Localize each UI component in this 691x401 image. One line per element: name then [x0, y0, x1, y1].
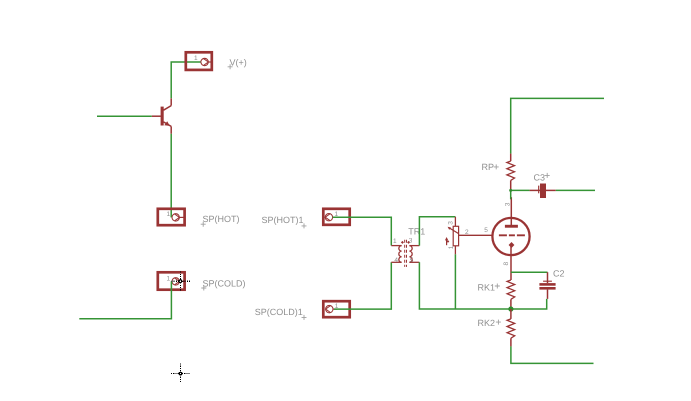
label SP(COLD) [201, 278, 245, 290]
resistor RK2 [507, 309, 515, 346]
wire SP(HOT)1 net to TR1 pin1 [333, 217, 392, 245]
wire anode node [510, 189, 512, 199]
junction cathode rail [508, 306, 513, 311]
resistor RP [507, 154, 515, 190]
svg-text:1: 1 [448, 245, 455, 249]
connector J1 V(+) [186, 52, 213, 70]
svg-text:5: 5 [484, 227, 488, 234]
svg-text:1: 1 [393, 238, 397, 245]
wire SP(COLD)1 net to TR1 pin4 [334, 262, 391, 309]
wire anode to C3 [511, 189, 530, 191]
svg-text:3: 3 [505, 202, 512, 206]
connector SP(HOT)1 [323, 209, 349, 225]
svg-text:3: 3 [447, 221, 454, 225]
svg-text:2: 2 [465, 229, 469, 236]
connector SP(HOT) [158, 209, 185, 225]
wire TR1 pin5 to cathode junction rail [419, 262, 546, 309]
label RK2 [478, 318, 501, 328]
svg-text:SP(HOT)1: SP(HOT)1 [262, 215, 304, 225]
svg-text:RK1: RK1 [478, 283, 496, 293]
wire potentiometer bottom to rail [454, 254, 456, 309]
resistor RK1 [507, 280, 515, 309]
cursor crosshair on SP(COLD) pin [171, 272, 190, 291]
svg-text:TR1: TR1 [408, 227, 425, 237]
capacitor C2 (polarized) [539, 272, 555, 299]
junction anode node [509, 189, 512, 192]
wire TR1 pin3 to potentiometer top [419, 217, 455, 246]
svg-text:SP(COLD): SP(COLD) [203, 278, 246, 288]
svg-text:RK2: RK2 [478, 318, 496, 328]
cursor crosshair lower [171, 364, 190, 384]
connector SP(COLD)1 [323, 301, 349, 317]
wire emitter net to SP(HOT) [170, 134, 172, 218]
transformer TR1 [391, 240, 419, 267]
wire base net of Q1 [97, 115, 152, 117]
wire collector net to V(+) [171, 62, 201, 98]
svg-text:1: 1 [167, 211, 171, 218]
label SP(COLD)1 [255, 307, 307, 320]
svg-text:3: 3 [409, 237, 413, 244]
svg-text:SP(COLD)1: SP(COLD)1 [255, 307, 303, 317]
svg-text:1: 1 [167, 275, 171, 282]
vacuum tube triode U1 [492, 197, 529, 280]
wire cathode to C2 top [511, 271, 548, 273]
label SP(HOT) [201, 214, 240, 227]
transistor Q1 (NPN) [152, 98, 171, 134]
svg-text:1: 1 [194, 55, 198, 62]
label C3 [534, 172, 550, 182]
connector SP(COLD) [158, 272, 185, 289]
svg-text:4: 4 [394, 257, 398, 264]
capacitor C3 (polarized) [530, 184, 556, 199]
wire RK2 bottom rail [511, 346, 594, 363]
svg-text:5: 5 [410, 257, 414, 264]
svg-text:SP(HOT): SP(HOT) [203, 214, 240, 224]
wire V+ top rail [511, 98, 604, 153]
label V(+) [228, 58, 247, 70]
label RK1 [478, 283, 500, 293]
label SP(HOT)1 [262, 215, 307, 228]
wire SP(COLD) net to bottom left [79, 281, 171, 318]
label RP [482, 162, 499, 172]
svg-text:C2: C2 [553, 268, 565, 278]
svg-text:RP: RP [482, 162, 495, 172]
svg-text:8: 8 [503, 262, 510, 266]
svg-text:C3: C3 [534, 172, 546, 182]
svg-text:V(+): V(+) [230, 58, 247, 68]
potentiometer (trimmer) [445, 217, 492, 254]
wire C3 to right [556, 189, 595, 191]
